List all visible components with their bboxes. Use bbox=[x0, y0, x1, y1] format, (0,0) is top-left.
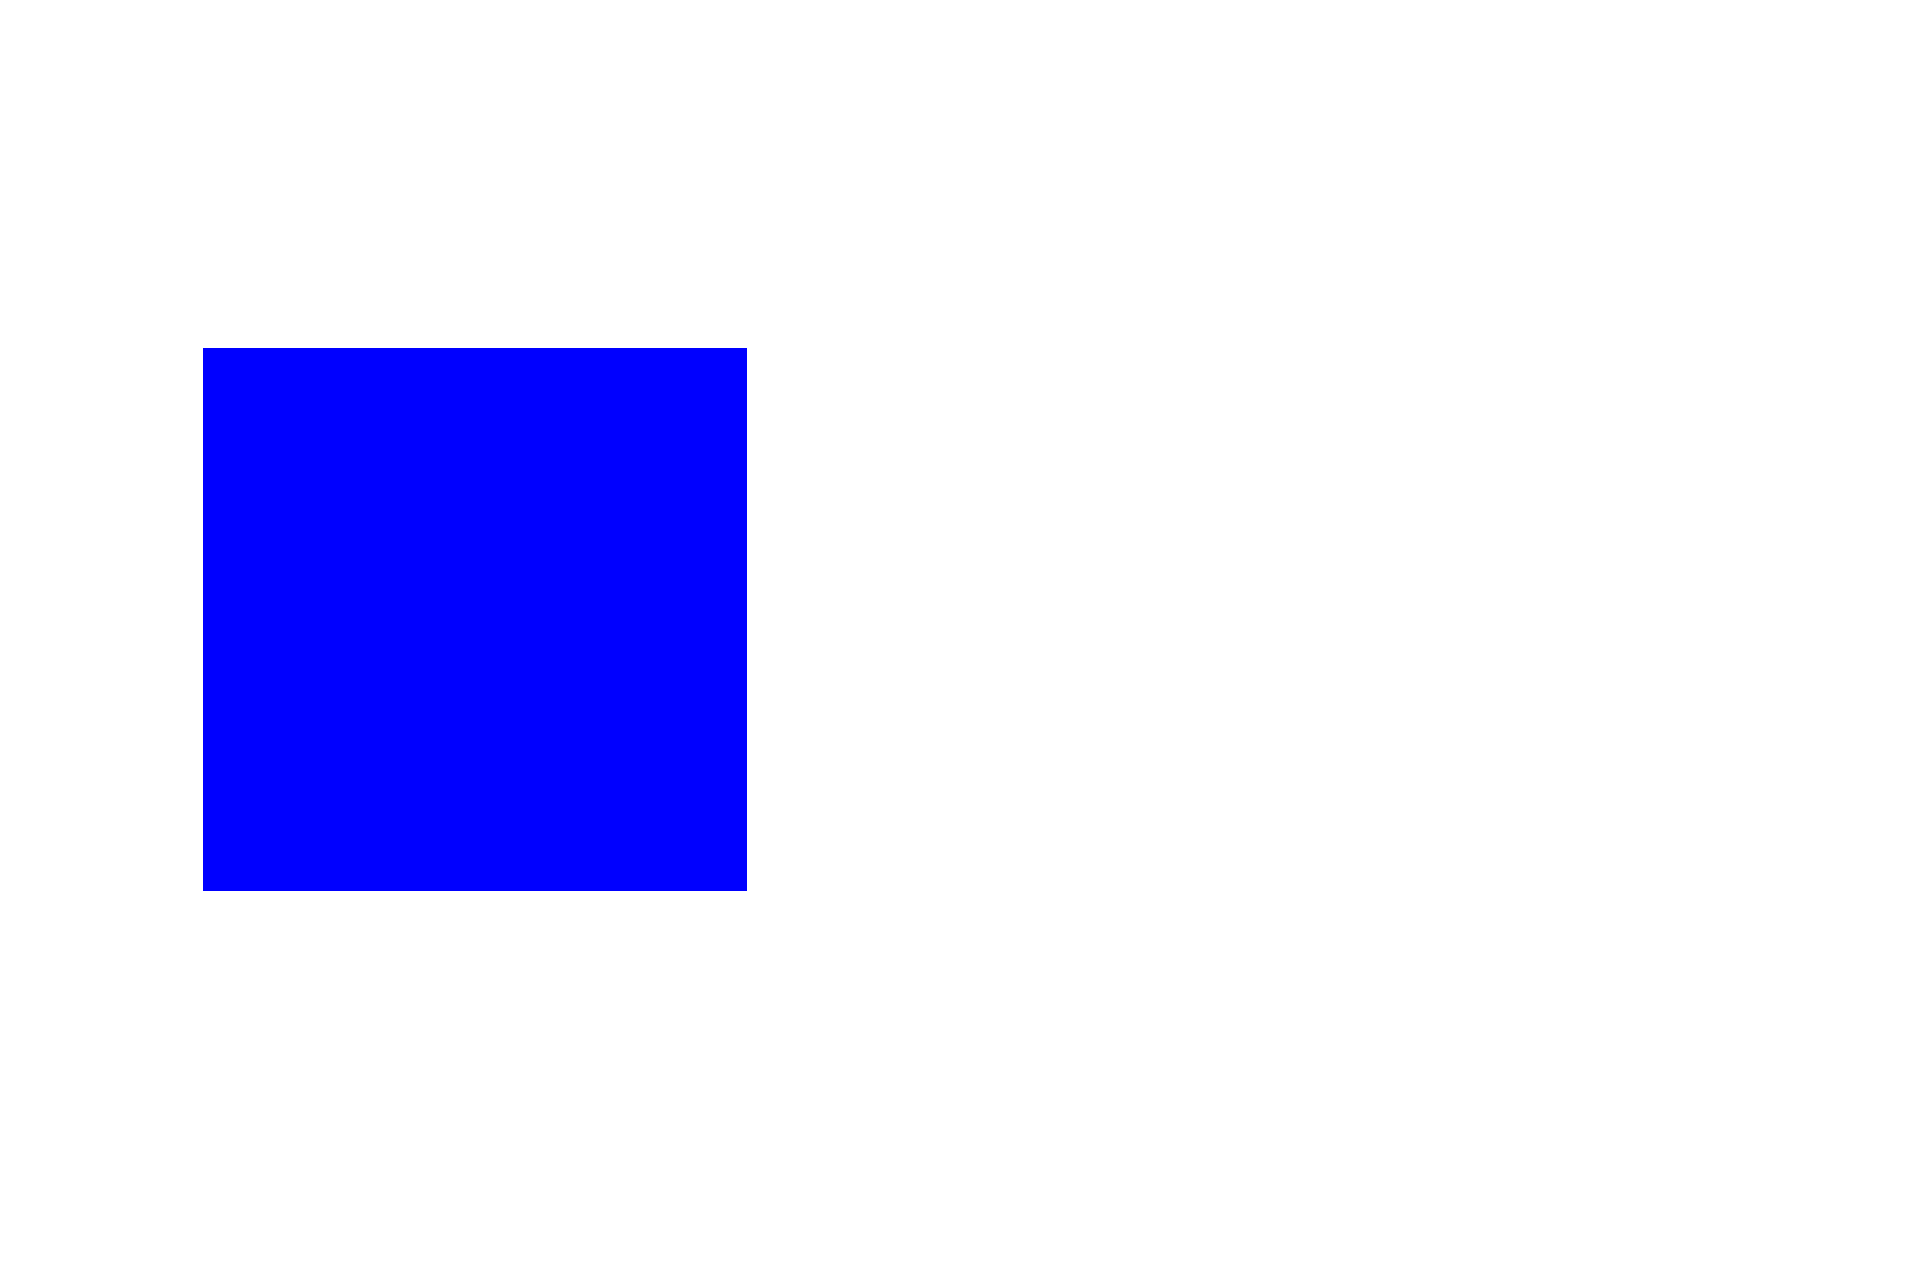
blue square bbox=[203, 348, 747, 891]
